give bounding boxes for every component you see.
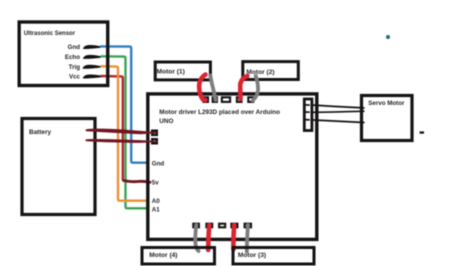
bottom pad 1 <box>193 224 199 228</box>
wire Echo squiggle <box>83 55 101 59</box>
top pad C <box>222 97 230 102</box>
battery wire lower (maroon) <box>85 139 157 143</box>
wire gray motor4 <box>195 225 198 251</box>
servo wire 3 <box>311 120 365 123</box>
svg-text:Motor (3): Motor (3) <box>238 252 266 259</box>
servo motor box <box>362 96 413 141</box>
servo wire 1 <box>311 105 365 108</box>
svg-text:Gnd: Gnd <box>152 161 165 168</box>
wire maroon 5v stub <box>124 181 151 183</box>
svg-text:Vcc: Vcc <box>69 73 81 80</box>
svg-text:Motor (2): Motor (2) <box>246 69 274 76</box>
servo pin stub 3 <box>305 119 309 121</box>
wire green Echo to A1 <box>101 56 150 208</box>
bottom pad 2 <box>206 224 212 228</box>
wire red motor2 <box>240 76 247 99</box>
svg-text:5v: 5v <box>152 180 159 187</box>
wire red motor3 <box>231 225 236 250</box>
motor 2 box <box>243 62 298 80</box>
wire red motor4 <box>208 225 209 250</box>
left pad P1 <box>152 131 157 135</box>
top pad A <box>204 97 208 102</box>
bottom pad 5 <box>245 224 251 228</box>
svg-text:Motor (4): Motor (4) <box>149 252 177 259</box>
wire Gnd squiggle (black stub) <box>83 45 101 49</box>
svg-text:Servo Motor: Servo Motor <box>368 100 405 107</box>
svg-text:Echo: Echo <box>65 54 80 61</box>
bottom pad 3 <box>219 224 225 228</box>
svg-text:Gnd: Gnd <box>68 44 81 51</box>
wire blue Gnd to Arduino <box>100 46 150 162</box>
wire orange Trig to A0 <box>101 66 150 201</box>
svg-text:Motor driver L293D placed over: Motor driver L293D placed over Arduino <box>159 109 280 116</box>
Arduino / motor driver box <box>148 94 317 240</box>
servo pin stub 1 <box>305 104 309 106</box>
svg-text:UNO: UNO <box>159 118 173 125</box>
svg-text:Trig: Trig <box>69 64 81 71</box>
battery wire upper (maroon) <box>85 129 157 135</box>
top pad D <box>237 97 242 102</box>
svg-text:A1: A1 <box>152 206 160 213</box>
battery box <box>22 119 95 215</box>
servo wire 2 <box>311 111 365 112</box>
wire gray motor3 <box>247 225 248 252</box>
top pad E <box>248 97 253 102</box>
motor 4 box <box>142 248 215 265</box>
wire gray motor2 <box>253 76 258 101</box>
svg-text:Ultrasonic Sensor: Ultrasonic Sensor <box>24 31 76 37</box>
servo pin stub 2 <box>305 111 309 113</box>
bottom pad 4 <box>231 224 237 228</box>
wire red Vcc down <box>101 76 123 181</box>
ultrasonic sensor box border repaint <box>19 22 108 86</box>
motor 1 box <box>155 62 210 80</box>
svg-text:Battery: Battery <box>29 129 51 136</box>
teal dot <box>386 35 390 39</box>
wire Trig squiggle <box>83 65 101 69</box>
wire gray motor1 <box>210 76 215 101</box>
svg-text:A0: A0 <box>152 198 160 205</box>
servo header connector <box>304 99 312 131</box>
small dash mark <box>420 131 424 133</box>
motor 3 box <box>233 248 314 265</box>
wire Vcc squiggle <box>83 74 103 78</box>
ultrasonic sensor box U1 <box>19 22 108 86</box>
svg-text:Motor (1): Motor (1) <box>157 69 185 76</box>
top pad B <box>213 97 217 102</box>
wire red motor1 <box>199 75 205 101</box>
left pad P2 <box>152 139 157 143</box>
